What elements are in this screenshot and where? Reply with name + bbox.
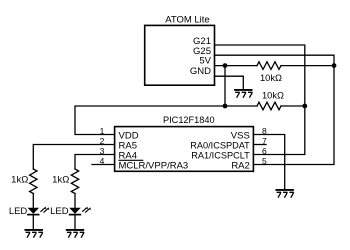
wire R1 right lead to node at x=334: [281, 65, 334, 67]
svg-text:7: 7: [262, 136, 267, 146]
junction node VDD rail at (224.5,106): [223, 104, 228, 109]
svg-text:1kΩ: 1kΩ: [11, 174, 28, 185]
LED D2: [69, 207, 91, 215]
junction node G25/R1 at (334,65.6): [332, 63, 337, 68]
IC U1 PIC12F1840 body: [115, 127, 254, 172]
wire LED D1 to ground: [32, 215, 34, 230]
wire PIC pin3 RA4 to R4 branch: [75, 155, 115, 170]
svg-text:LED: LED: [9, 206, 28, 217]
wire VDD rail: corner x=75 to R2 left lead, down to pin1: [75, 106, 257, 135]
svg-text:6: 6: [262, 146, 267, 156]
module A1 ATOM Lite body: [145, 25, 215, 85]
svg-text:10kΩ: 10kΩ: [262, 90, 284, 100]
wire 5V to VDD rail vertical: [224, 66, 226, 106]
overline over MCLR: [118, 159, 143, 161]
svg-text:LED: LED: [50, 206, 69, 217]
svg-text:2: 2: [100, 136, 105, 146]
svg-text:GND: GND: [190, 66, 211, 77]
svg-text:5V: 5V: [199, 56, 211, 67]
ground symbol below LED D1: [25, 230, 43, 238]
svg-text:1: 1: [100, 126, 105, 136]
wire R3 to LED D1: [32, 194, 34, 208]
wire R2 right lead to node at x=304.8: [281, 105, 305, 107]
resistor R1 10kΩ horizontal: [257, 62, 281, 70]
svg-text:PIC12F1840: PIC12F1840: [163, 115, 215, 125]
wire ATOM GND to ground: [215, 76, 244, 89]
svg-text:RA2: RA2: [231, 160, 249, 171]
wire R4 to LED D2: [74, 194, 76, 208]
LED D1: [27, 207, 49, 215]
svg-text:RA1/ICSPCLT: RA1/ICSPCLT: [191, 150, 250, 160]
svg-text:1kΩ: 1kΩ: [52, 174, 69, 185]
svg-text:5: 5: [262, 156, 267, 166]
wire G25 net: ATOM G25 to PIC pin5 via x=334: [215, 55, 335, 164]
svg-text:ATOM Lite: ATOM Lite: [165, 14, 210, 25]
resistor R4 1kΩ vertical: [71, 169, 78, 194]
svg-text:MCLR/VPP/RA3: MCLR/VPP/RA3: [119, 160, 189, 171]
junction node G21/R2 at (304.8,106): [302, 104, 307, 109]
junction node 5V/VDD at (224.5,65.6): [223, 63, 228, 68]
resistor R3 1kΩ vertical: [30, 169, 37, 194]
svg-text:4: 4: [100, 156, 105, 166]
wire PIC pin2 RA5 to R3 branch: [33, 145, 114, 170]
wire 5V lead from ATOM to R1 left: [215, 65, 258, 67]
wire LED D2 to ground: [74, 215, 76, 230]
svg-text:RA0/ICSPDAT: RA0/ICSPDAT: [190, 140, 250, 150]
ground symbol below LED D2: [66, 230, 84, 238]
wire G21 net: ATOM G21 to PIC pin6 via x=304.8: [215, 45, 305, 155]
wire PIC pin7 RA0 stub: [253, 144, 266, 146]
svg-text:8: 8: [262, 126, 267, 136]
wire PIC pin4 MCLR stub: [92, 164, 115, 166]
svg-text:3: 3: [100, 146, 105, 156]
svg-text:10kΩ: 10kΩ: [260, 73, 282, 83]
resistor R2 10kΩ horizontal: [257, 102, 281, 110]
ground symbol below PIC VSS: [276, 190, 294, 198]
ground symbol below ATOM GND: [234, 90, 252, 98]
wire PIC pin8 VSS to ground: [253, 135, 284, 190]
